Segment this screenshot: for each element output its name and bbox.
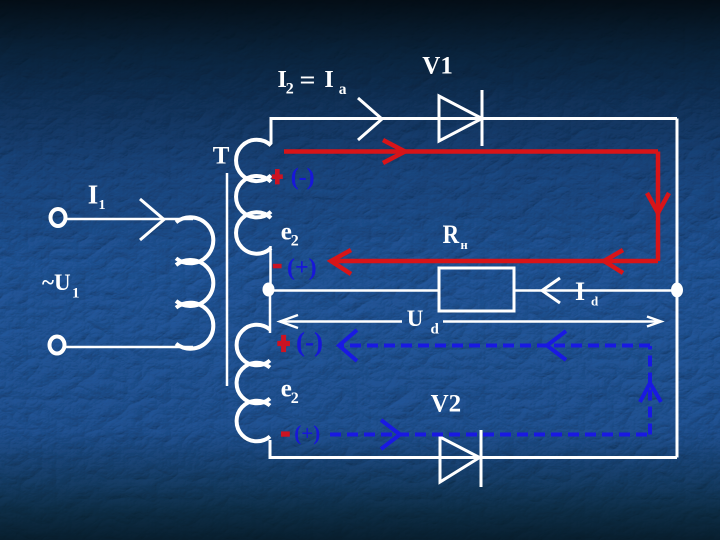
svg-text:(+): (+) [294,421,320,445]
svg-text:(-): (-) [296,327,323,357]
node: center tap junction [263,283,275,297]
wire: upper secondary to center tap [269,246,272,289]
svg-text:T: T [213,143,230,170]
svg-text:I: I [88,179,99,209]
wire: center tap to lower secondary [269,290,272,333]
current path 1 (red, first half-cycle) [284,140,669,274]
wire: blue dashed top segment [341,344,650,348]
Ud dimension arrow [280,315,661,328]
arrow I1 on primary lead [140,199,164,240]
diode V1 [439,90,482,146]
svg-text:I: I [575,277,585,306]
label I2 = Ia [278,65,347,98]
svg-text:1: 1 [72,285,80,301]
arrow blue left on top segment [547,331,566,360]
svg-text:2: 2 [291,390,299,407]
svg-text:d: d [591,294,599,309]
arrow blue left at end of path [339,330,357,361]
wire: bottom wire from lower secondary to V2 and right edge [270,440,677,458]
wire: primary lower lead [65,346,193,349]
svg-text:1: 1 [99,198,106,213]
arrow blue up on vertical segment [640,383,661,402]
resistor Rn [439,268,514,311]
svg-text:U: U [407,306,424,331]
svg-text:(+): (+) [287,255,317,281]
wire: red right vertical segment [656,152,661,262]
svg-text:2: 2 [291,233,299,250]
arrow I2 on top wire [358,98,382,140]
arrow red right on top segment [383,140,405,163]
arrow Id on center wire [542,278,560,303]
terminal: lower primary terminal [50,337,65,354]
svg-text:н: н [461,238,468,252]
svg-text:d: d [431,321,440,337]
transformer secondary winding e2 upper [236,140,271,254]
polarity label bottom of lower secondary: - (+) [281,421,320,445]
transformer T core [226,173,229,386]
wire: primary upper lead [66,218,193,221]
wire: top wire from upper secondary to V1 anode and on to right edge [271,119,677,145]
arrow red left on bottom segment [604,250,623,273]
diode V2 [440,430,481,487]
wire: center wire right of resistor [514,289,677,292]
svg-text:V1: V1 [422,52,453,79]
polarity label top of lower secondary: + (-) [277,327,323,357]
svg-text:(-): (-) [291,164,315,190]
svg-text:I: I [324,67,333,93]
arrow red left at end of path [331,250,351,274]
svg-text:~U: ~U [42,270,71,295]
polarity label bottom of upper secondary: - (+) [273,255,317,281]
wire: blue dashed right vertical segment [648,346,652,435]
current path 2 (blue dashed, second half-cycle) [330,330,661,449]
wire: red bottom segment [332,259,658,264]
polarity label top of upper secondary: + (-) [272,164,315,190]
svg-text:a: a [339,81,347,98]
arrow red down on vertical segment [647,193,669,213]
svg-text:R: R [443,220,460,249]
wire: right edge of outer loop [676,119,679,458]
svg-text:2: 2 [286,80,294,97]
svg-text:=: = [300,65,316,94]
node: right junction [671,283,683,298]
terminal: upper primary terminal [51,209,66,226]
transformer secondary winding e2 lower [237,325,270,442]
wire: blue dashed bottom segment [330,433,650,437]
wire: center wire left of resistor [270,289,439,292]
transformer primary winding [176,217,213,348]
wire: red top segment [284,149,658,154]
svg-text:V2: V2 [431,391,462,418]
arrow blue right on bottom segment [381,420,400,449]
